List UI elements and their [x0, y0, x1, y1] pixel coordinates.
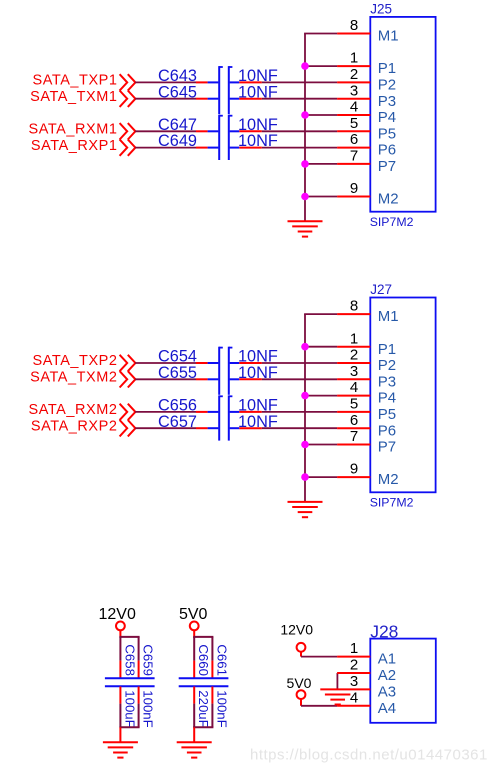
top rail bar: [119, 636, 139, 638]
pin number 5: [350, 115, 358, 132]
capacitor C661 bottom wire: [211, 704, 213, 728]
pin number 3: [350, 82, 358, 99]
capacitor C661 bottom pin: [211, 687, 213, 704]
connector J28 box: [370, 639, 436, 723]
pin name M2: [378, 191, 399, 208]
wire bus to pin M2: [305, 196, 337, 198]
ground symbol under C660: [177, 742, 212, 757]
pin name M1: [378, 308, 399, 325]
pin number 8: [350, 17, 358, 34]
svg-text:P2: P2: [378, 77, 396, 94]
svg-text:C659: C659: [141, 644, 156, 676]
svg-text:100nF: 100nF: [214, 690, 229, 727]
J28 pin name A4: [378, 700, 396, 717]
svg-text:C647: C647: [158, 116, 197, 134]
wire M1 to ground bus: [304, 313, 337, 315]
capacitor C643 left pin: [196, 81, 208, 83]
svg-text:J27: J27: [370, 282, 392, 297]
pin number 4: [350, 379, 358, 396]
svg-text:https://blog.csdn.net/u0144703: https://blog.csdn.net/u014470361: [250, 747, 488, 764]
capacitor plates right line group 2: [219, 115, 232, 160]
wire 12V0 circle to rail: [119, 630, 121, 638]
pin name M1: [378, 28, 399, 45]
power port 5V0 label (J28): [287, 675, 312, 691]
pin name P1: [378, 341, 396, 358]
capacitor C649 label: [158, 132, 197, 150]
svg-text:SATA_RXP1: SATA_RXP1: [31, 138, 118, 154]
junction dot at M2: [301, 473, 309, 481]
ground symbol at J28 pin3: [325, 695, 351, 705]
port label SATA_RXP1: [31, 138, 118, 154]
svg-text:P4: P4: [378, 390, 396, 407]
capacitor C655 left plate stub: [208, 378, 219, 380]
svg-text:3: 3: [350, 673, 358, 690]
pin name P2: [378, 357, 396, 374]
capacitor C655 left pin: [196, 378, 208, 380]
capacitor C656 right plate stub: [230, 411, 240, 413]
pin number 6: [350, 131, 358, 148]
power port 12V0 label (J28): [280, 622, 313, 638]
pin number 8: [350, 298, 358, 315]
svg-text:5: 5: [350, 396, 358, 413]
power port 12V0 circle (J28): [297, 643, 306, 652]
svg-text:5: 5: [350, 115, 358, 132]
svg-text:P5: P5: [378, 125, 396, 142]
capacitor C645 right pin: [239, 98, 261, 100]
svg-text:1: 1: [350, 640, 358, 657]
pin name P3: [378, 373, 396, 390]
svg-text:6: 6: [350, 412, 358, 429]
capacitor C654 left plate stub: [208, 362, 219, 364]
J28 pin number 4: [350, 689, 358, 706]
svg-text:C655: C655: [158, 364, 197, 382]
svg-text:SATA_TXM2: SATA_TXM2: [30, 370, 117, 386]
svg-text:3: 3: [350, 363, 358, 380]
svg-text:C658: C658: [122, 644, 137, 676]
power port 5V0 circle: [190, 622, 199, 631]
wire capacitor C656 to pin 5: [262, 411, 337, 413]
capacitor C655 value 10NF: [238, 364, 278, 382]
svg-text:SIP7M2: SIP7M2: [370, 496, 414, 510]
capacitor C661 designator: [214, 644, 229, 676]
power port 5V0 circle (J28): [297, 690, 306, 699]
capacitor plates left line (caps C643/C645/C647/C649): [219, 66, 232, 114]
capacitor C643 left plate stub: [208, 81, 219, 83]
pin 8 (M1) stub: [337, 313, 370, 315]
capacitor C654 right plate stub: [230, 362, 240, 364]
capacitor C660 top wire: [193, 637, 195, 661]
connector J25 box: [370, 17, 435, 212]
pin name P2: [378, 77, 396, 94]
wire SATA_TXP2 to capacitor C654: [135, 362, 196, 364]
pin 3 (P3) stub: [337, 378, 370, 380]
wire SATA_TXM2 to capacitor C655: [135, 378, 196, 380]
chevron port symbol SATA_TXM2: [120, 371, 136, 387]
svg-text:2: 2: [350, 657, 358, 674]
wire SATA_RXP1 to capacitor C649: [135, 147, 196, 149]
capacitor C655 label: [158, 364, 197, 382]
capacitor C657 right pin: [239, 427, 261, 429]
pin name P6: [378, 422, 396, 439]
svg-text:P1: P1: [378, 60, 396, 77]
J28 pin number 1: [350, 640, 358, 657]
chevron port symbol SATA_TXP1: [120, 74, 136, 90]
connector J27 designator: [370, 282, 392, 297]
wire bus to pin P4: [305, 114, 337, 116]
svg-text:P4: P4: [378, 109, 396, 126]
capacitor C655 right pin: [239, 378, 261, 380]
J28 pin 1 stub: [337, 656, 370, 658]
wire rail to ground: [119, 727, 121, 742]
svg-text:SATA_TXP1: SATA_TXP1: [33, 73, 118, 89]
capacitor C658 bottom pin: [119, 687, 121, 704]
svg-text:6: 6: [350, 131, 358, 148]
wire bus to pin P7: [305, 163, 337, 165]
wire SATA_TXM1 to capacitor C645: [135, 98, 196, 100]
pin number 7: [350, 428, 358, 445]
pin 6 (P6) stub: [337, 147, 370, 149]
chevron port symbol SATA_RXM1: [120, 123, 136, 139]
capacitor C643 label: [158, 67, 197, 85]
ground symbol below J27: [288, 502, 323, 517]
svg-text:4: 4: [350, 689, 358, 706]
svg-text:SATA_RXP2: SATA_RXP2: [31, 418, 118, 434]
junction dot at P4: [301, 111, 309, 119]
pin 5 (P5) stub: [337, 411, 370, 413]
capacitor C660 value: [196, 690, 211, 727]
svg-text:M2: M2: [378, 471, 399, 488]
wire capacitor C647 to pin 5: [262, 130, 337, 132]
svg-text:A2: A2: [378, 667, 396, 684]
svg-text:C645: C645: [158, 83, 197, 101]
capacitor C660 bottom pin: [193, 687, 195, 704]
power port 12V0 circle: [116, 622, 125, 631]
capacitor C647 left plate stub: [208, 130, 219, 132]
pin 7 (P7) stub: [337, 163, 370, 165]
capacitor C656 right pin: [239, 411, 261, 413]
capacitor C649 value 10NF: [238, 132, 278, 150]
pin 9 (M2) stub: [337, 196, 370, 198]
junction dot at P7: [301, 160, 309, 168]
svg-text:SATA_RXM2: SATA_RXM2: [28, 402, 117, 418]
svg-text:P6: P6: [378, 422, 396, 439]
pin number 9: [350, 180, 358, 197]
J28 pin 4 stub: [337, 705, 370, 707]
capacitor C658 top wire: [119, 637, 121, 661]
svg-text:9: 9: [350, 180, 358, 197]
svg-text:C657: C657: [158, 413, 197, 431]
J28 pin name A2: [378, 667, 396, 684]
pin name M2: [378, 471, 399, 488]
svg-text:P7: P7: [378, 158, 396, 175]
svg-text:A3: A3: [378, 684, 396, 701]
connector J25 type SIP7M2: [370, 215, 414, 229]
power port 5V0 label: [179, 606, 208, 623]
pin number 7: [350, 148, 358, 165]
pin 7 (P7) stub: [337, 444, 370, 446]
capacitor C647 value 10NF: [238, 116, 278, 134]
wire capacitor C645 to pin 3: [262, 98, 337, 100]
pin 6 (P6) stub: [337, 427, 370, 429]
capacitor C657 left pin: [196, 427, 208, 429]
svg-text:P7: P7: [378, 439, 396, 456]
svg-text:100uF: 100uF: [122, 690, 137, 727]
pin number 9: [350, 461, 358, 478]
capacitor C656 left pin: [196, 411, 208, 413]
port label SATA_RXP2: [31, 418, 118, 434]
capacitor C656 value 10NF: [238, 397, 278, 415]
J28 pin 2 stub: [337, 672, 370, 674]
top rail bar: [193, 636, 213, 638]
connector J28 designator: [370, 622, 398, 642]
pin number 1: [350, 50, 358, 67]
capacitor C654 right pin: [239, 362, 261, 364]
svg-text:9: 9: [350, 461, 358, 478]
capacitor C660 top pin: [193, 661, 195, 678]
pin number 2: [350, 66, 358, 83]
capacitor C658 top pin: [119, 661, 121, 678]
svg-text:C660: C660: [196, 644, 211, 676]
svg-text:SATA_TXM1: SATA_TXM1: [30, 89, 117, 105]
svg-text:M2: M2: [378, 191, 399, 208]
pin name P7: [378, 158, 396, 175]
svg-text:12V0: 12V0: [280, 622, 313, 638]
power port 12V0 label: [99, 606, 136, 623]
capacitor C647 left pin: [196, 130, 208, 132]
J28 pin number 3: [350, 673, 358, 690]
capacitor C647 right plate stub: [230, 130, 240, 132]
ground symbol below J25: [288, 221, 323, 236]
connector J27 box: [370, 298, 435, 493]
ground symbol under C658: [103, 742, 138, 757]
capacitor C659 top wire: [138, 637, 140, 661]
svg-text:2: 2: [350, 347, 358, 364]
ground bus vertical wire J25: [304, 34, 306, 222]
capacitor C643 value 10NF: [238, 67, 278, 85]
junction dot at M2: [301, 193, 309, 201]
svg-text:C661: C661: [214, 644, 229, 676]
chevron port symbol SATA_RXP1: [120, 139, 136, 155]
capacitor C657 label: [158, 413, 197, 431]
port label SATA_TXP2: [33, 353, 118, 369]
wire bus to pin P4: [305, 395, 337, 397]
svg-text:C649: C649: [158, 132, 197, 150]
svg-text:4: 4: [350, 379, 358, 396]
capacitor C657 value 10NF: [238, 413, 278, 431]
svg-text:P3: P3: [378, 93, 396, 110]
svg-text:M1: M1: [378, 308, 399, 325]
J28 pin name A1: [378, 651, 396, 668]
capacitor C657 left plate stub: [208, 427, 219, 429]
wire capacitor C643 to pin 2: [262, 81, 337, 83]
svg-text:1: 1: [350, 50, 358, 67]
capacitor C661 top wire: [211, 637, 213, 661]
wire capacitor C655 to pin 3: [262, 378, 337, 380]
capacitor C645 right plate stub: [230, 98, 240, 100]
port label SATA_TXM2: [30, 370, 117, 386]
capacitor C658 bottom wire: [119, 704, 121, 728]
svg-text:SATA_TXP2: SATA_TXP2: [33, 353, 118, 369]
junction dot at P1: [301, 62, 309, 70]
capacitor C649 left pin: [196, 147, 208, 149]
capacitor C649 left plate stub: [208, 147, 219, 149]
wire SATA_TXP1 to capacitor C643: [135, 81, 196, 83]
wire bus to pin M2: [305, 476, 337, 478]
pin number 2: [350, 347, 358, 364]
bottom rail bar: [193, 726, 213, 728]
svg-text:8: 8: [350, 298, 358, 315]
wire SATA_RXM2 to capacitor C656: [135, 411, 196, 413]
capacitor C657 right plate stub: [230, 427, 240, 429]
capacitor C661 top pin: [211, 661, 213, 678]
pin 2 (P2) stub: [337, 362, 370, 364]
wire M1 to ground bus: [304, 33, 337, 35]
capacitor C659 value: [141, 690, 156, 727]
capacitor C659 designator: [141, 644, 156, 676]
svg-text:P3: P3: [378, 373, 396, 390]
port label SATA_TXM1: [30, 89, 117, 105]
wire SATA_RXM1 to capacitor C647: [135, 130, 196, 132]
port label SATA_RXM2: [28, 402, 117, 418]
capacitor C660 designator: [196, 644, 211, 676]
capacitor C645 left pin: [196, 98, 208, 100]
chevron port symbol SATA_RXM2: [120, 404, 136, 420]
pin 5 (P5) stub: [337, 130, 370, 132]
ground bus vertical wire J27: [304, 314, 306, 502]
svg-text:3: 3: [350, 82, 358, 99]
capacitor C658 value: [122, 690, 137, 727]
svg-text:2: 2: [350, 66, 358, 83]
pin 9 (M2) stub: [337, 476, 370, 478]
pin 8 (M1) stub: [337, 33, 370, 35]
svg-text:P1: P1: [378, 341, 396, 358]
capacitor C643 right pin: [239, 81, 261, 83]
pin name P5: [378, 406, 396, 423]
svg-text:A4: A4: [378, 700, 396, 717]
capacitor C649 right pin: [239, 147, 261, 149]
svg-text:7: 7: [350, 428, 358, 445]
svg-text:J25: J25: [370, 2, 392, 17]
capacitor C654 value 10NF: [238, 348, 278, 366]
bottom rail bar: [119, 726, 139, 728]
capacitor C660 bottom wire: [193, 704, 195, 728]
pin number 6: [350, 412, 358, 429]
J28 pin number 2: [350, 657, 358, 674]
wire SATA_RXP2 to capacitor C657: [135, 427, 196, 429]
chevron port symbol SATA_RXP2: [120, 420, 136, 436]
capacitor C654 label: [158, 348, 197, 366]
capacitor plates top: [179, 677, 229, 679]
svg-text:C656: C656: [158, 397, 197, 415]
capacitor plates bottom: [105, 685, 155, 687]
capacitor C659 top pin: [138, 661, 140, 678]
capacitor C645 left plate stub: [208, 98, 219, 100]
wire capacitor C649 to pin 6: [262, 147, 337, 149]
pin 4 (P4) stub: [337, 114, 370, 116]
svg-text:P2: P2: [378, 357, 396, 374]
pin name P5: [378, 125, 396, 142]
pin number 3: [350, 363, 358, 380]
svg-text:P6: P6: [378, 142, 396, 159]
svg-text:12V0: 12V0: [99, 606, 136, 623]
svg-text:J28: J28: [370, 622, 398, 642]
pin 4 (P4) stub: [337, 395, 370, 397]
capacitor C659 bottom wire: [138, 704, 140, 728]
svg-text:A1: A1: [378, 651, 396, 668]
wire bus to pin P7: [305, 444, 337, 446]
capacitor C656 label: [158, 397, 197, 415]
wire 5V0 circle drop: [300, 699, 302, 706]
svg-text:7: 7: [350, 148, 358, 165]
svg-text:SIP7M2: SIP7M2: [370, 215, 414, 229]
connector J25 designator: [370, 2, 392, 17]
svg-text:P5: P5: [378, 406, 396, 423]
wire pin2 elbow down to ground: [336, 673, 338, 689]
capacitor plates right line group 2: [219, 395, 232, 440]
capacitor C658 designator: [122, 644, 137, 676]
capacitor C645 label: [158, 83, 197, 101]
svg-text:C643: C643: [158, 67, 197, 85]
junction dot at P7: [301, 441, 309, 449]
pin 1 (P1) stub: [337, 346, 370, 348]
pin 1 (P1) stub: [337, 65, 370, 67]
pin number 1: [350, 330, 358, 347]
capacitor plates bottom: [179, 685, 229, 687]
capacitor C645 value 10NF: [238, 83, 278, 101]
pin name P7: [378, 439, 396, 456]
wire 5V0 to pin 4: [301, 705, 337, 707]
svg-text:C654: C654: [158, 348, 197, 366]
port label SATA_RXM1: [28, 122, 117, 138]
pin number 4: [350, 99, 358, 116]
wire 5V0 circle to rail: [193, 630, 195, 638]
junction dot at P4: [301, 392, 309, 400]
wire capacitor C657 to pin 6: [262, 427, 337, 429]
capacitor C654 left pin: [196, 362, 208, 364]
junction dot at P1: [301, 343, 309, 351]
wire 12V0 circle drop: [300, 652, 302, 657]
pin name P4: [378, 109, 396, 126]
capacitor plates left line (caps C654/C655/C656/C657): [219, 347, 232, 395]
pin number 5: [350, 396, 358, 413]
svg-text:8: 8: [350, 17, 358, 34]
pin name P4: [378, 390, 396, 407]
connector J27 type SIP7M2: [370, 496, 414, 510]
wire rail to ground: [193, 727, 195, 742]
wire bus to pin P1: [305, 65, 337, 67]
svg-text:100nF: 100nF: [141, 690, 156, 727]
watermark: [250, 747, 488, 764]
wire capacitor C654 to pin 2: [262, 362, 337, 364]
pin 3 (P3) stub: [337, 98, 370, 100]
wire 12V0 to pin 1: [301, 656, 337, 658]
wire bus to pin P1: [305, 346, 337, 348]
capacitor C643 right plate stub: [230, 81, 240, 83]
svg-text:220uF: 220uF: [196, 690, 211, 727]
capacitor C647 label: [158, 116, 197, 134]
svg-text:4: 4: [350, 99, 358, 116]
chevron port symbol SATA_TXM1: [120, 91, 136, 107]
svg-text:1: 1: [350, 330, 358, 347]
port label SATA_TXP1: [33, 73, 118, 89]
capacitor C659 bottom pin: [138, 687, 140, 704]
capacitor C661 value: [214, 690, 229, 727]
J28 pin name A3: [378, 684, 396, 701]
chevron port symbol SATA_TXP2: [120, 355, 136, 371]
J28 pin 3 wire + ground top bar: [320, 688, 370, 690]
pin 2 (P2) stub: [337, 81, 370, 83]
capacitor C655 right plate stub: [230, 378, 240, 380]
